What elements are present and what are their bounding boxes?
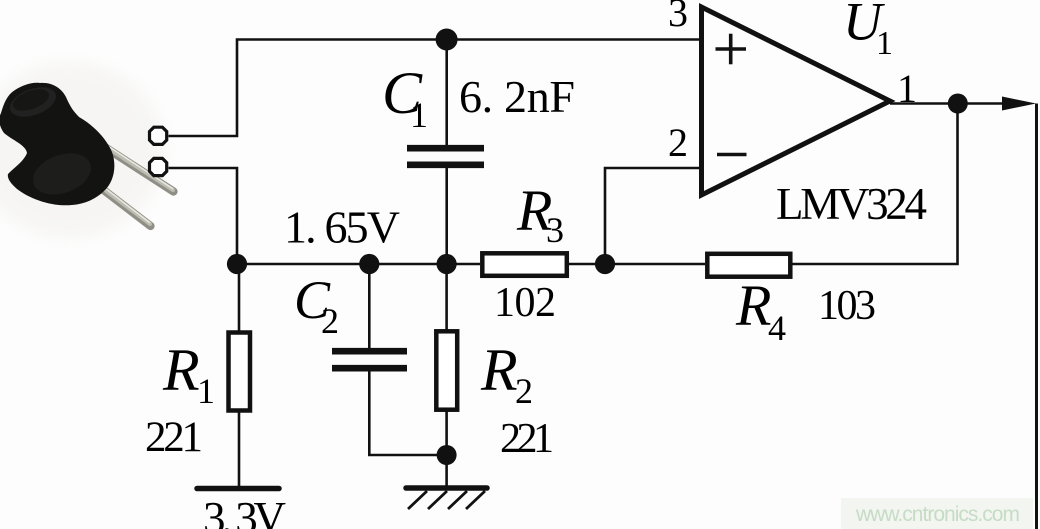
svg-text:221: 221 <box>145 414 203 461</box>
svg-text:3: 3 <box>668 0 688 35</box>
svg-text:R: R <box>162 337 200 403</box>
svg-text:221: 221 <box>500 416 554 462</box>
svg-text:LMV324: LMV324 <box>776 179 927 229</box>
svg-text:2: 2 <box>515 371 533 411</box>
svg-text:R: R <box>480 337 518 403</box>
svg-text:www.cntronics.com: www.cntronics.com <box>855 503 1020 526</box>
svg-text:1. 65V: 1. 65V <box>284 202 400 253</box>
svg-text:4: 4 <box>768 308 786 348</box>
svg-text:3. 3V: 3. 3V <box>203 493 286 529</box>
svg-text:103: 103 <box>818 283 876 329</box>
svg-text:6. 2nF: 6. 2nF <box>459 71 575 122</box>
svg-text:1: 1 <box>876 25 893 62</box>
svg-text:102: 102 <box>494 280 556 326</box>
svg-text:R: R <box>735 273 771 338</box>
svg-text:2: 2 <box>321 301 339 341</box>
svg-text:1: 1 <box>410 95 428 135</box>
svg-text:1: 1 <box>197 371 215 411</box>
svg-text:1: 1 <box>897 66 917 111</box>
svg-text:3: 3 <box>546 210 564 250</box>
svg-text:2: 2 <box>668 120 688 165</box>
